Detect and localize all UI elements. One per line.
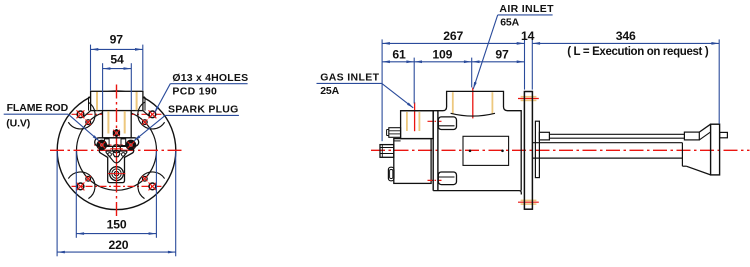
svg-text:( L = Execution on request ): ( L = Execution on request ) — [567, 46, 709, 58]
svg-text:109: 109 — [432, 48, 452, 62]
svg-text:97: 97 — [495, 48, 509, 62]
svg-text:220: 220 — [109, 238, 129, 252]
svg-text:150: 150 — [107, 218, 127, 232]
svg-text:346: 346 — [616, 29, 636, 43]
svg-text:54: 54 — [110, 53, 124, 67]
svg-text:61: 61 — [392, 48, 406, 62]
svg-text:PCD 190: PCD 190 — [172, 86, 217, 98]
svg-text:FLAME ROD: FLAME ROD — [7, 102, 69, 114]
svg-text:SPARK PLUG: SPARK PLUG — [168, 104, 239, 116]
svg-text:65A: 65A — [500, 16, 519, 28]
svg-text:Ø13 x 4HOLES: Ø13 x 4HOLES — [172, 72, 248, 84]
svg-text:267: 267 — [443, 29, 463, 43]
svg-text:(U.V): (U.V) — [6, 118, 30, 130]
svg-text:AIR INLET: AIR INLET — [499, 3, 554, 15]
svg-text:GAS INLET: GAS INLET — [320, 72, 379, 84]
svg-text:14: 14 — [521, 29, 535, 43]
svg-text:97: 97 — [110, 32, 124, 46]
svg-text:25A: 25A — [320, 85, 339, 97]
